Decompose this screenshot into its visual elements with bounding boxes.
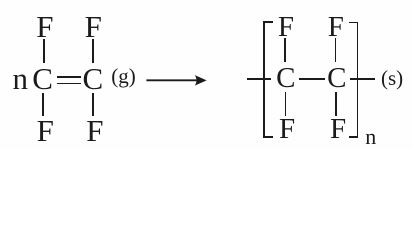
left bracket top arm	[263, 21, 273, 23]
right bracket bottom arm	[349, 136, 359, 138]
repeat subscript n	[365, 126, 376, 148]
bond C3-F7	[285, 92, 287, 116]
chain bond through left bracket	[247, 78, 271, 80]
atom F2 (top-right)	[85, 11, 102, 42]
right bracket top arm	[349, 22, 359, 24]
atom C4	[327, 64, 346, 93]
double bond C1=C2 lower	[57, 83, 81, 85]
left bracket vertical	[263, 21, 265, 138]
bond C4-F8	[335, 92, 337, 116]
double bond C1=C2 upper	[57, 76, 81, 78]
state label (g)	[111, 66, 136, 87]
bond F5-C3	[284, 38, 286, 62]
state label (s)	[381, 68, 403, 89]
bond F1-C1	[43, 39, 45, 63]
bond C3-C4	[299, 78, 325, 80]
atom F8 (bottom-right)	[330, 115, 346, 144]
chain bond through right bracket	[350, 78, 375, 80]
atom F4 (bottom-right)	[86, 115, 103, 146]
atom F1 (top-left)	[36, 11, 53, 42]
atom C2	[83, 63, 104, 94]
bond F2-C2	[92, 39, 94, 63]
right bracket vertical	[357, 22, 359, 138]
bond F6-C4	[335, 38, 337, 62]
atom F3 (bottom-left)	[37, 115, 54, 146]
atom F5 (top-left)	[278, 13, 294, 42]
atom C1	[32, 63, 53, 94]
atom F6 (top-right)	[328, 13, 344, 42]
bond C2-F4	[92, 93, 94, 117]
bond C1-F3	[42, 93, 44, 117]
left bracket bottom arm	[263, 136, 273, 138]
coefficient n	[13, 63, 29, 94]
reaction arrow	[144, 72, 209, 89]
atom C3	[276, 64, 295, 93]
atom F7 (bottom-left)	[279, 115, 295, 144]
